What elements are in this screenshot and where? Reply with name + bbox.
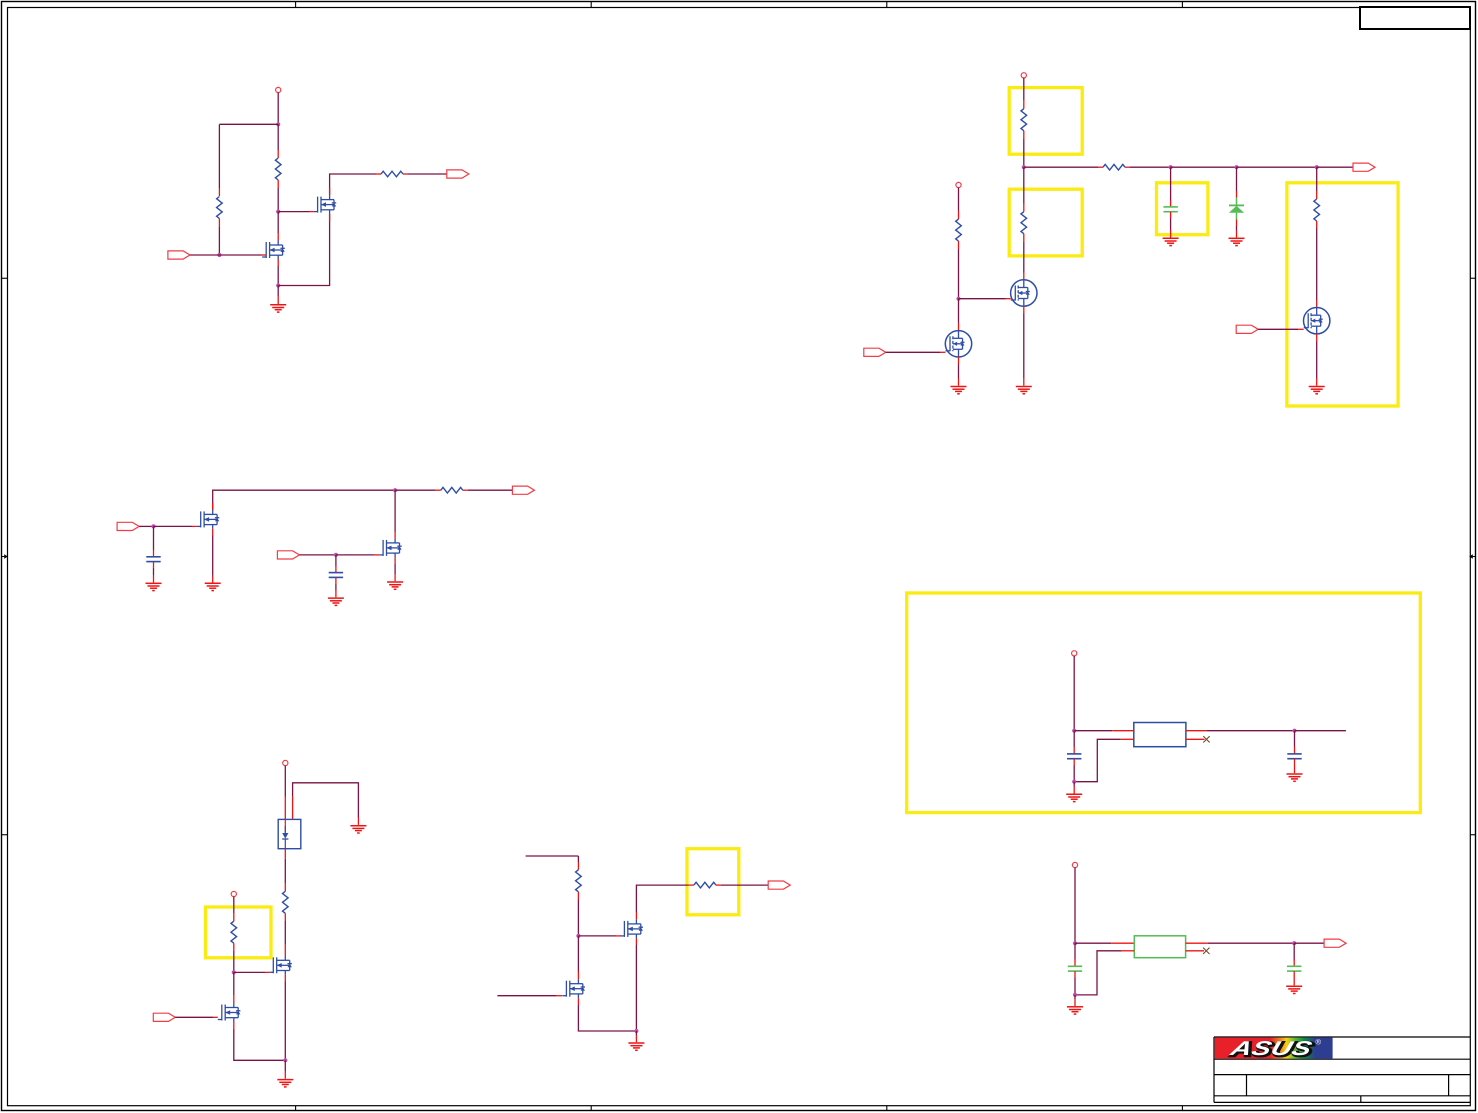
transistor Q11 circled bbox=[945, 331, 971, 357]
node M junction bbox=[956, 297, 960, 301]
wire node K to node L bbox=[1237, 166, 1317, 168]
port input 1 bbox=[168, 251, 190, 259]
ground G3 bbox=[205, 583, 221, 590]
yellow highlight box 5 bbox=[907, 593, 1421, 813]
wire node C to Q2 gate bbox=[278, 211, 313, 213]
yellow highlight box 7 bbox=[687, 849, 739, 915]
node V junction bbox=[1073, 941, 1077, 945]
power symbol VCC3 bbox=[956, 182, 961, 187]
wire Q4 drain to node F bbox=[394, 490, 396, 538]
ground G12 bbox=[1287, 774, 1303, 781]
zone tick marks top and bottom edges bbox=[296, 1, 1183, 1111]
resistor R4 bbox=[441, 487, 463, 493]
capacitor C5 bbox=[1287, 754, 1301, 759]
wire node G to Q4 gate bbox=[336, 554, 379, 556]
capacitor C2 bbox=[329, 573, 343, 578]
wire Q11 source to ground bbox=[958, 357, 960, 386]
wire node M down to Q11 drain bbox=[958, 299, 960, 331]
wire node B to Q1 gate bbox=[219, 254, 266, 256]
wire VCC1 to node A bbox=[277, 93, 279, 125]
node A junction bbox=[276, 122, 280, 126]
wire Q3 drain up to output net bbox=[213, 490, 395, 510]
zone tick marks left and right edges bbox=[1, 278, 1476, 835]
wire node X to ground bbox=[1074, 995, 1076, 1006]
wire VCC7 to node V bbox=[1074, 868, 1076, 944]
wire R10 to Q6 drain bbox=[284, 913, 286, 956]
wire node L down to R9 bbox=[1316, 167, 1318, 199]
diode D2 green bbox=[1229, 198, 1244, 220]
ground G10 bbox=[1309, 387, 1325, 394]
wire net stub left to Q9 gate bbox=[497, 995, 562, 997]
transistor Q9 bbox=[562, 979, 585, 998]
wire port1 to node B bbox=[190, 254, 220, 256]
resistor R7 bbox=[1021, 212, 1027, 234]
wire Q1 source to node D bbox=[277, 260, 279, 286]
power symbol VCC4 bbox=[1072, 651, 1077, 656]
node D junction bbox=[276, 283, 280, 287]
ground G9 bbox=[1229, 238, 1245, 245]
wire node C down to Q1 drain bbox=[277, 212, 279, 241]
ground G7 bbox=[951, 387, 967, 394]
node N junction bbox=[1072, 729, 1076, 733]
ground G11 bbox=[1066, 794, 1082, 801]
ground G5 bbox=[387, 582, 403, 589]
resistor R13 bbox=[694, 882, 716, 888]
power symbol VCC2 bbox=[1021, 73, 1026, 78]
resistor R10 bbox=[283, 891, 289, 913]
wire FB1 pin3 corner to node X bbox=[1075, 951, 1134, 995]
ground G2 bbox=[146, 583, 162, 590]
node H junction bbox=[1022, 165, 1026, 169]
port output 2 bbox=[512, 486, 534, 494]
wire node H to R6 bbox=[1024, 166, 1103, 168]
wire node A down to R2 bbox=[277, 124, 279, 158]
port output 1 bbox=[447, 170, 469, 178]
wire node V down to C6 bbox=[1074, 943, 1076, 966]
wire node G down to C2 bbox=[335, 555, 337, 573]
node J junction bbox=[1169, 165, 1173, 169]
svg-text:®: ® bbox=[1316, 1038, 1322, 1047]
ground G13 bbox=[350, 826, 366, 833]
yellow highlight box 6 bbox=[206, 907, 272, 958]
wire Q6 source to node S bbox=[284, 975, 286, 1061]
resistor R3 bbox=[381, 171, 403, 177]
resistor R5 bbox=[1021, 109, 1027, 131]
transistor Q4 bbox=[379, 538, 402, 557]
wire node J to node K bbox=[1171, 166, 1237, 168]
wire C4 to node Q bbox=[1073, 759, 1075, 782]
node P junction bbox=[1292, 729, 1296, 733]
inductor L1 blue box bbox=[1134, 723, 1186, 747]
wire VCC3 to R8 bbox=[958, 188, 960, 220]
node G junction bbox=[334, 553, 338, 557]
wire node P down to C5 bbox=[1294, 731, 1296, 754]
wire Q12 source to ground bbox=[1316, 334, 1318, 386]
wire R6 to node J bbox=[1125, 166, 1171, 168]
node L junction bbox=[1315, 165, 1319, 169]
wire node T to Q8 gate bbox=[578, 935, 621, 937]
wire node K down to D2 LED bbox=[1236, 167, 1238, 197]
transistor Q2 bbox=[314, 195, 337, 214]
port input 4 bbox=[864, 348, 886, 356]
wire C3 to ground bbox=[1170, 212, 1172, 238]
wire C5 to ground bbox=[1294, 759, 1296, 774]
wire R12 to node T bbox=[577, 892, 579, 936]
transistor Q8 bbox=[620, 919, 643, 938]
ground G4 bbox=[328, 598, 344, 605]
wire node W down to C7 bbox=[1293, 943, 1295, 966]
wire Q4 source to ground bbox=[394, 557, 396, 581]
wire node T down to Q9 drain bbox=[577, 936, 579, 979]
wire port2 to node E bbox=[139, 525, 153, 527]
capacitor C6 bbox=[1068, 966, 1082, 971]
wire L1 pin2 to node P bbox=[1186, 730, 1295, 732]
wire net stub top to R12 bbox=[526, 856, 579, 870]
wire node U to ground bbox=[635, 1031, 637, 1042]
wire port3 to node G bbox=[299, 554, 336, 556]
power symbol VCC1 bbox=[276, 87, 281, 92]
ground G15 bbox=[628, 1043, 644, 1050]
power symbol VCC6 bbox=[231, 891, 236, 896]
port output 3 bbox=[1353, 163, 1375, 171]
port output 5 bbox=[1324, 939, 1346, 947]
wire R9 to Q12 drain bbox=[1316, 221, 1318, 308]
wire left branch down to R1 bbox=[218, 124, 220, 196]
wire VCC4 to node N bbox=[1073, 656, 1075, 731]
wire R4 to output port 2 bbox=[463, 489, 513, 491]
resistor R11 bbox=[231, 921, 237, 943]
node R junction bbox=[232, 970, 236, 974]
port input 5 bbox=[1236, 325, 1258, 333]
wire node E down to C1 bbox=[153, 526, 155, 556]
transistor Q7 bbox=[218, 1003, 241, 1022]
capacitor C4 bbox=[1067, 754, 1081, 759]
node Q junction bbox=[1072, 780, 1076, 784]
ground G16 bbox=[1067, 1007, 1083, 1014]
ground G14 bbox=[277, 1080, 293, 1087]
port input 6 bbox=[153, 1013, 175, 1021]
svg-text:ASUS: ASUS bbox=[1227, 1037, 1315, 1059]
resistor R8 bbox=[956, 219, 962, 241]
wire D1 pin3 to R10 bbox=[284, 849, 286, 892]
wire node V to FB1 pin1 bbox=[1075, 942, 1134, 944]
ground G1 bbox=[270, 305, 286, 312]
wire R11 to node R bbox=[233, 943, 235, 972]
node U junction bbox=[634, 1029, 638, 1033]
wire Q8 source to node U bbox=[635, 938, 637, 1031]
wire node S to ground bbox=[284, 1060, 286, 1079]
node B junction bbox=[217, 253, 221, 257]
resistor R12 bbox=[576, 870, 582, 892]
resistor R1 bbox=[217, 197, 223, 219]
wire C1 to ground bbox=[153, 562, 155, 583]
pin L1 pin4 no-connect bbox=[1186, 736, 1210, 742]
wire node W to output port 5 bbox=[1294, 942, 1324, 944]
wire R8 to node M bbox=[958, 241, 960, 299]
wire R3 to output port bbox=[403, 173, 447, 175]
wire VCC2 to R5 bbox=[1023, 78, 1025, 109]
power symbol VCC7 bbox=[1072, 862, 1077, 867]
capacitor C1 bbox=[146, 557, 160, 562]
wire port6 to Q7 gate bbox=[175, 1016, 218, 1018]
resistor R9 bbox=[1314, 199, 1320, 221]
transistor Q1 bbox=[262, 241, 285, 260]
port output 4 bbox=[768, 881, 790, 889]
wire L1 pin3 corner to node Q bbox=[1074, 739, 1134, 781]
wire node J down to C3 bbox=[1170, 167, 1172, 207]
node X junction bbox=[1073, 993, 1077, 997]
wire node E to Q3 gate bbox=[154, 525, 197, 527]
resistor R6 bbox=[1103, 164, 1125, 170]
wire C6 to node X bbox=[1074, 971, 1076, 995]
transistor Q6 bbox=[269, 956, 292, 975]
wire node P to right stub bbox=[1295, 730, 1346, 732]
yellow highlight box 1 bbox=[1009, 88, 1082, 155]
filter FB1 green box bbox=[1134, 936, 1185, 958]
transistor Q3 bbox=[197, 510, 220, 529]
node C junction bbox=[276, 210, 280, 214]
wire node N down to C4 bbox=[1073, 731, 1075, 754]
wire Q2 source to node D bbox=[278, 214, 329, 285]
wire node D to ground bbox=[277, 286, 279, 305]
yellow highlight box 3 bbox=[1157, 183, 1208, 235]
node K junction bbox=[1234, 165, 1238, 169]
diode box D1 bbox=[278, 819, 301, 848]
wire node A to left branch bbox=[219, 123, 278, 125]
title block grid bbox=[1214, 1037, 1471, 1102]
wire node H down to R7 bbox=[1023, 167, 1025, 212]
yellow highlight box 4 bbox=[1287, 183, 1398, 406]
wire D2 to ground bbox=[1236, 220, 1238, 238]
wire Q9 source to node U bbox=[578, 998, 636, 1031]
wire Q8 drain to R13 bbox=[636, 885, 694, 919]
ground G6 bbox=[1016, 387, 1032, 394]
port input 2 bbox=[117, 522, 139, 530]
ground G17 bbox=[1286, 986, 1302, 993]
wire Q7 source to node S bbox=[234, 1022, 285, 1060]
node W junction bbox=[1292, 941, 1296, 945]
node S junction bbox=[283, 1058, 287, 1062]
node E junction bbox=[151, 524, 155, 528]
center registration arrow left edge bbox=[1, 554, 8, 559]
wire VCC6 to R11 bbox=[233, 897, 235, 922]
wire node N to L1 pin1 bbox=[1074, 730, 1134, 732]
wire VCC5 to D1 pin1 bbox=[284, 766, 286, 820]
ASUS logo bbox=[1215, 1037, 1333, 1061]
wire Q2 drain to R3 bbox=[330, 174, 381, 195]
port input 3 bbox=[277, 551, 299, 559]
wire port4 to Q11 gate bbox=[886, 351, 946, 353]
pin FB1 pin4 no-connect bbox=[1186, 948, 1210, 954]
node T junction bbox=[576, 934, 580, 938]
wire node R to Q6 gate bbox=[234, 971, 269, 973]
power symbol VCC5 bbox=[283, 760, 288, 765]
node F junction bbox=[393, 488, 397, 492]
capacitor C3 bbox=[1163, 207, 1177, 212]
ground G8 bbox=[1163, 238, 1179, 245]
wire R13 to output port 4 bbox=[716, 884, 768, 886]
wire R2 to node C bbox=[277, 180, 279, 212]
transistor Q10 circled bbox=[1011, 280, 1037, 306]
wire node Q to ground bbox=[1073, 782, 1075, 794]
wire FB1 pin2 to node W bbox=[1186, 942, 1295, 944]
wire R7 to Q10 drain bbox=[1023, 234, 1025, 280]
transistor Q12 circled bbox=[1304, 308, 1330, 334]
yellow highlight box 2 bbox=[1009, 189, 1082, 256]
wire node R down to Q7 drain bbox=[233, 972, 235, 1003]
wire node F to R4 bbox=[395, 489, 441, 491]
wire Q10 source to ground bbox=[1023, 306, 1025, 386]
wire node L to output port 3 bbox=[1317, 166, 1353, 168]
wire C7 to ground bbox=[1293, 971, 1295, 985]
wire port5 to Q12 gate bbox=[1258, 328, 1303, 330]
capacitor C7 bbox=[1287, 966, 1301, 971]
wire R5 to node H bbox=[1023, 131, 1025, 168]
wire Q3 source to ground bbox=[212, 529, 214, 583]
center registration arrow right edge bbox=[1469, 554, 1476, 559]
revision box top right bbox=[1360, 7, 1470, 29]
wire C2 to ground bbox=[335, 577, 337, 597]
wire D1 pin2 to ground branch bbox=[293, 783, 359, 825]
wire R1 to node B bbox=[218, 219, 220, 256]
wire node M to Q10 gate bbox=[959, 298, 1011, 300]
resistor R2 bbox=[275, 158, 281, 180]
